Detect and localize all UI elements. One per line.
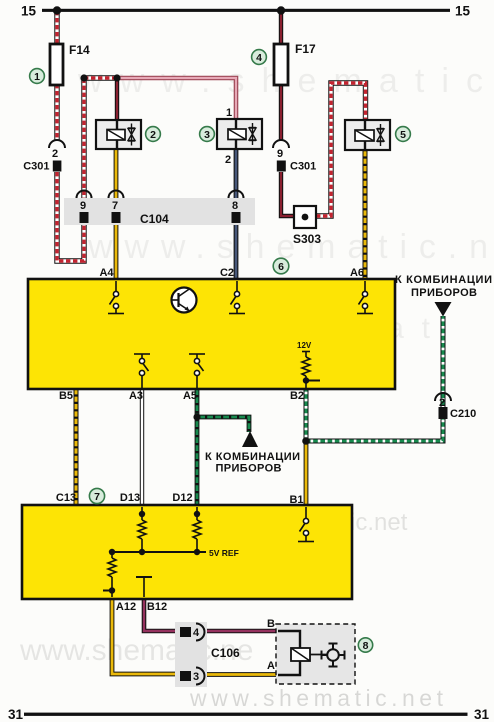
svg-text:C104: C104 xyxy=(140,212,169,226)
svg-text:К КОМБИНАЦИИ: К КОМБИНАЦИИ xyxy=(205,451,300,463)
svg-text:www.shematic.n: www.shematic.n xyxy=(87,228,488,266)
svg-text:9: 9 xyxy=(80,200,86,212)
svg-text:C13: C13 xyxy=(56,492,76,504)
svg-text:C301: C301 xyxy=(290,161,316,173)
svg-text:3: 3 xyxy=(193,671,199,683)
svg-text:C2: C2 xyxy=(220,267,234,279)
svg-text:4: 4 xyxy=(193,627,200,639)
svg-text:2: 2 xyxy=(150,129,156,141)
svg-text:1: 1 xyxy=(34,71,40,83)
svg-text:9: 9 xyxy=(277,148,283,160)
svg-text:C106: C106 xyxy=(211,646,240,660)
svg-text:1: 1 xyxy=(226,107,232,119)
svg-text:S303: S303 xyxy=(293,232,321,246)
svg-text:D12: D12 xyxy=(172,492,192,504)
svg-text:B: B xyxy=(267,618,275,630)
svg-text:A4: A4 xyxy=(99,267,114,279)
svg-text:7: 7 xyxy=(94,491,100,503)
svg-text:A6: A6 xyxy=(350,267,364,279)
svg-text:15: 15 xyxy=(455,4,471,19)
svg-text:ПРИБОРОВ: ПРИБОРОВ xyxy=(216,463,282,475)
svg-text:5V REF: 5V REF xyxy=(209,548,239,558)
svg-text:4: 4 xyxy=(256,52,262,64)
svg-text:15: 15 xyxy=(21,4,37,19)
svg-text:C301: C301 xyxy=(23,161,49,173)
svg-text:A12: A12 xyxy=(116,601,136,613)
svg-text:F14: F14 xyxy=(69,43,90,57)
svg-text:A3: A3 xyxy=(129,390,143,402)
svg-text:5: 5 xyxy=(400,129,406,141)
svg-text:8: 8 xyxy=(363,640,369,652)
svg-text:F17: F17 xyxy=(295,42,316,56)
svg-text:ПРИБОРОВ: ПРИБОРОВ xyxy=(411,287,477,299)
svg-text:2: 2 xyxy=(225,154,231,166)
svg-text:B12: B12 xyxy=(147,601,167,613)
svg-text:3: 3 xyxy=(204,129,210,141)
svg-text:B2: B2 xyxy=(290,390,304,402)
svg-text:К КОМБИНАЦИИ: К КОМБИНАЦИИ xyxy=(395,274,492,286)
svg-text:2: 2 xyxy=(52,148,58,160)
svg-text:31: 31 xyxy=(474,707,490,722)
svg-text:7: 7 xyxy=(112,200,118,212)
svg-text:D13: D13 xyxy=(120,492,140,504)
svg-text:B5: B5 xyxy=(59,390,73,402)
svg-text:6: 6 xyxy=(278,261,284,273)
svg-text:8: 8 xyxy=(232,200,238,212)
svg-text:B1: B1 xyxy=(289,494,303,506)
svg-text:www.shematic.net: www.shematic.net xyxy=(189,685,444,711)
svg-text:12V: 12V xyxy=(297,341,312,350)
svg-text:31: 31 xyxy=(8,707,24,722)
svg-text:C210: C210 xyxy=(450,408,476,420)
svg-text:A5: A5 xyxy=(183,390,197,402)
svg-text:A: A xyxy=(267,660,275,672)
